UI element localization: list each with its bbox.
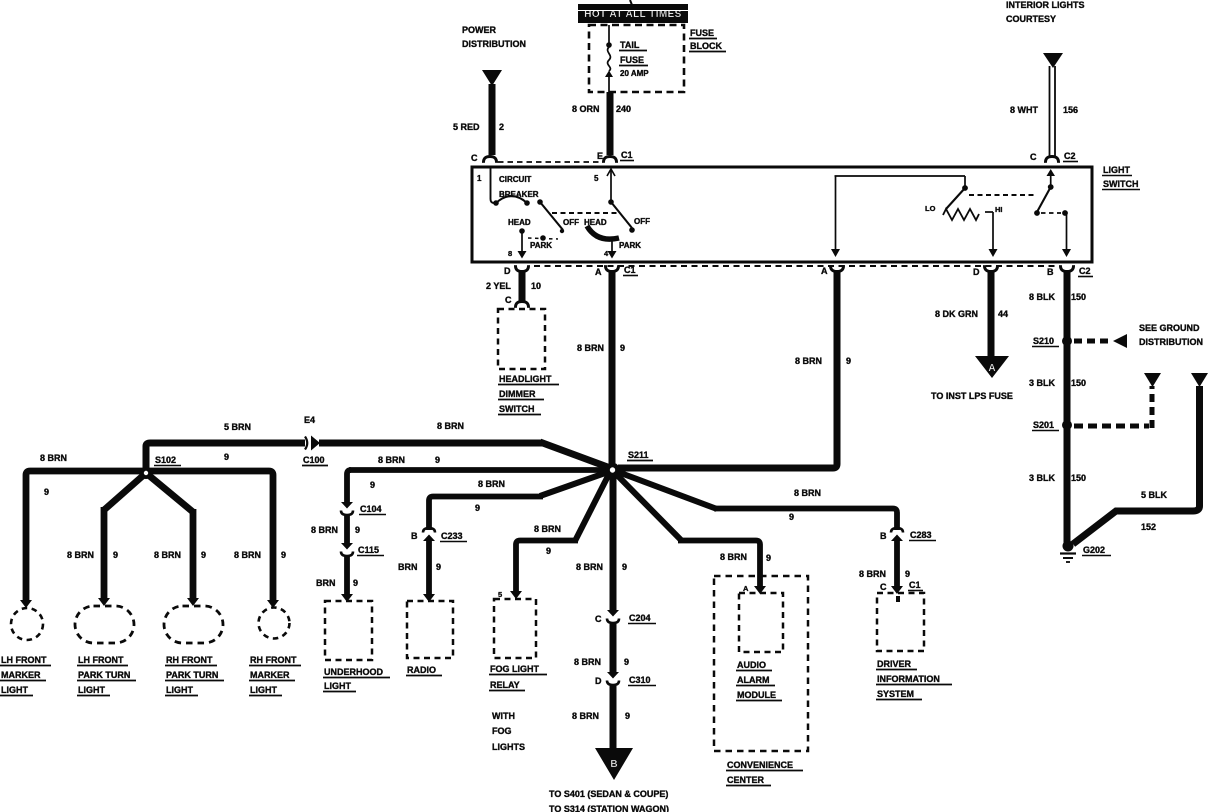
svg-text:10: 10 (531, 281, 541, 291)
svg-text:SWITCH: SWITCH (1103, 179, 1139, 189)
svg-text:LH FRONT: LH FRONT (1, 655, 47, 665)
svg-text:BRN: BRN (316, 578, 336, 588)
svg-text:8 WHT: 8 WHT (1010, 105, 1039, 115)
svg-text:20 AMP: 20 AMP (620, 69, 649, 78)
svg-text:BLOCK: BLOCK (690, 41, 722, 51)
svg-text:9: 9 (224, 452, 229, 462)
svg-text:DRIVER: DRIVER (877, 659, 912, 669)
svg-text:OFF: OFF (563, 218, 579, 227)
svg-text:FUSE: FUSE (690, 28, 714, 38)
svg-text:LIGHTS: LIGHTS (492, 742, 525, 752)
svg-text:ALARM: ALARM (737, 675, 770, 685)
svg-text:8 BRN: 8 BRN (234, 550, 261, 560)
svg-text:C283: C283 (910, 530, 932, 540)
svg-text:9: 9 (625, 711, 630, 721)
svg-text:C1: C1 (909, 580, 921, 590)
svg-text:LIGHT: LIGHT (78, 685, 105, 695)
svg-text:240: 240 (616, 104, 631, 114)
svg-text:TAIL: TAIL (620, 40, 640, 50)
svg-text:PARK: PARK (530, 241, 552, 250)
svg-text:156: 156 (1063, 105, 1078, 115)
svg-text:C: C (505, 295, 512, 305)
svg-text:PARK TURN: PARK TURN (166, 670, 218, 680)
svg-text:5: 5 (594, 174, 599, 183)
svg-text:TO S314 (STATION WAGON): TO S314 (STATION WAGON) (549, 804, 669, 812)
svg-text:152: 152 (1141, 522, 1156, 532)
svg-text:C310: C310 (629, 675, 651, 685)
svg-text:PARK: PARK (619, 241, 641, 250)
svg-text:OFF: OFF (634, 217, 650, 226)
svg-text:CIRCUIT: CIRCUIT (499, 175, 532, 184)
svg-text:9: 9 (353, 578, 358, 588)
svg-text:1: 1 (477, 174, 482, 183)
svg-text:8 BRN: 8 BRN (378, 455, 405, 465)
svg-text:8 ORN: 8 ORN (572, 104, 600, 114)
svg-text:B: B (411, 531, 418, 541)
svg-text:9: 9 (624, 657, 629, 667)
svg-text:CONVENIENCE: CONVENIENCE (727, 760, 793, 770)
svg-text:S210: S210 (1033, 336, 1054, 346)
svg-text:MODULE: MODULE (737, 690, 776, 700)
svg-text:150: 150 (1071, 473, 1086, 483)
svg-text:9: 9 (766, 553, 771, 563)
svg-text:BREAKER: BREAKER (499, 190, 539, 199)
svg-text:LIGHT: LIGHT (1, 685, 28, 695)
svg-text:8 BRN: 8 BRN (154, 550, 181, 560)
svg-text:S201: S201 (1033, 420, 1054, 430)
svg-text:FOG: FOG (492, 726, 512, 736)
svg-text:9: 9 (622, 562, 627, 572)
svg-text:C204: C204 (629, 613, 651, 623)
svg-text:MARKER: MARKER (250, 670, 290, 680)
svg-text:B: B (610, 759, 617, 770)
svg-text:LIGHT: LIGHT (166, 685, 193, 695)
svg-text:8 BRN: 8 BRN (40, 453, 67, 463)
svg-text:9: 9 (436, 562, 441, 572)
svg-text:PARK TURN: PARK TURN (78, 670, 130, 680)
svg-text:9: 9 (905, 569, 910, 579)
svg-text:HEAD: HEAD (508, 218, 531, 227)
svg-text:9: 9 (113, 550, 118, 560)
svg-text:INTERIOR LIGHTS: INTERIOR LIGHTS (1006, 0, 1085, 10)
svg-text:E: E (597, 151, 603, 161)
svg-text:POWER: POWER (462, 25, 497, 35)
svg-text:8 BLK: 8 BLK (1029, 292, 1056, 302)
svg-text:44: 44 (998, 309, 1008, 319)
svg-text:C1: C1 (624, 265, 636, 275)
svg-text:HEAD: HEAD (584, 218, 607, 227)
svg-text:8: 8 (508, 249, 512, 258)
svg-text:5 RED: 5 RED (453, 122, 480, 132)
svg-text:9: 9 (201, 550, 206, 560)
svg-text:INFORMATION: INFORMATION (877, 674, 940, 684)
svg-text:8 BRN: 8 BRN (534, 524, 561, 534)
svg-text:8 BRN: 8 BRN (572, 711, 599, 721)
svg-text:SWITCH: SWITCH (499, 404, 535, 414)
svg-text:3 BLK: 3 BLK (1029, 378, 1056, 388)
svg-text:9: 9 (846, 356, 851, 366)
svg-text:COURTESY: COURTESY (1006, 14, 1056, 24)
svg-text:MARKER: MARKER (1, 670, 41, 680)
svg-text:CENTER: CENTER (727, 775, 765, 785)
svg-text:D: D (973, 267, 980, 277)
svg-text:8 BRN: 8 BRN (720, 552, 747, 562)
svg-text:A: A (595, 267, 602, 277)
svg-text:DISTRIBUTION: DISTRIBUTION (1139, 337, 1203, 347)
svg-text:RELAY: RELAY (490, 680, 520, 690)
svg-text:G202: G202 (1083, 545, 1105, 555)
svg-text:WITH: WITH (492, 711, 515, 721)
svg-text:D: D (504, 266, 511, 276)
svg-text:TO INST LPS FUSE: TO INST LPS FUSE (931, 391, 1013, 401)
svg-text:8 BRN: 8 BRN (574, 657, 601, 667)
svg-text:8 DK GRN: 8 DK GRN (935, 309, 978, 319)
svg-text:B: B (880, 531, 887, 541)
svg-text:LIGHT: LIGHT (250, 685, 277, 695)
svg-text:8 BRN: 8 BRN (795, 356, 822, 366)
svg-text:A: A (821, 266, 828, 276)
svg-text:C104: C104 (360, 504, 382, 514)
svg-text:RH FRONT: RH FRONT (166, 655, 213, 665)
svg-text:8 BRN: 8 BRN (576, 562, 603, 572)
svg-text:LIGHT: LIGHT (1103, 165, 1130, 175)
svg-text:DISTRIBUTION: DISTRIBUTION (462, 39, 526, 49)
svg-text:A: A (988, 363, 995, 374)
svg-text:A: A (743, 584, 749, 593)
svg-text:9: 9 (44, 487, 49, 497)
svg-text:LIGHT: LIGHT (324, 681, 351, 691)
svg-text:UNDERHOOD: UNDERHOOD (324, 667, 384, 677)
svg-text:SYSTEM: SYSTEM (877, 689, 914, 699)
svg-text:2: 2 (499, 122, 504, 132)
svg-text:S102: S102 (155, 455, 176, 465)
svg-text:C2: C2 (1079, 266, 1091, 276)
svg-text:8 BRN: 8 BRN (577, 343, 604, 353)
svg-text:LO: LO (925, 204, 936, 213)
svg-text:150: 150 (1071, 378, 1086, 388)
svg-text:HEADLIGHT: HEADLIGHT (499, 374, 552, 384)
svg-text:9: 9 (789, 512, 794, 522)
svg-text:C: C (1030, 152, 1037, 162)
svg-text:DIMMER: DIMMER (499, 389, 536, 399)
svg-text:SEE GROUND: SEE GROUND (1139, 323, 1200, 333)
svg-text:S211: S211 (628, 450, 649, 460)
svg-text:150: 150 (1071, 292, 1086, 302)
svg-text:C: C (595, 614, 602, 624)
svg-text:AUDIO: AUDIO (737, 660, 766, 670)
svg-text:B: B (1047, 267, 1054, 277)
svg-text:RADIO: RADIO (407, 665, 436, 675)
svg-text:8 BRN: 8 BRN (859, 569, 886, 579)
svg-text:8 BRN: 8 BRN (437, 421, 464, 431)
svg-text:C: C (880, 582, 887, 592)
svg-text:C100: C100 (303, 455, 325, 465)
svg-text:C115: C115 (358, 545, 379, 555)
svg-text:RH FRONT: RH FRONT (250, 655, 297, 665)
svg-text:9: 9 (370, 480, 375, 490)
svg-text:2 YEL: 2 YEL (486, 281, 511, 291)
svg-text:9: 9 (475, 503, 480, 513)
svg-text:C2: C2 (1064, 151, 1076, 161)
svg-text:LH FRONT: LH FRONT (78, 655, 124, 665)
svg-text:TO S401 (SEDAN & COUPE): TO S401 (SEDAN & COUPE) (549, 789, 668, 799)
svg-text:3 BLK: 3 BLK (1029, 473, 1056, 483)
svg-text:5: 5 (498, 590, 502, 599)
svg-text:E4: E4 (304, 415, 315, 425)
svg-text:BRN: BRN (398, 562, 418, 572)
svg-text:5 BLK: 5 BLK (1141, 490, 1168, 500)
svg-text:9: 9 (435, 455, 440, 465)
svg-text:HI: HI (995, 205, 1003, 214)
svg-text:9: 9 (620, 343, 625, 353)
svg-text:9: 9 (281, 550, 286, 560)
svg-text:FOG LIGHT: FOG LIGHT (490, 664, 539, 674)
svg-text:8 BRN: 8 BRN (67, 550, 94, 560)
svg-text:9: 9 (355, 525, 360, 535)
svg-text:9: 9 (546, 546, 551, 556)
svg-text:5 BRN: 5 BRN (224, 422, 251, 432)
svg-text:FUSE: FUSE (620, 55, 644, 65)
svg-text:C: C (471, 153, 478, 163)
svg-text:C1: C1 (621, 150, 633, 160)
svg-text:D: D (595, 676, 602, 686)
svg-text:C233: C233 (441, 531, 463, 541)
svg-text:8 BRN: 8 BRN (794, 488, 821, 498)
svg-text:8 BRN: 8 BRN (311, 525, 338, 535)
svg-text:8 BRN: 8 BRN (478, 479, 505, 489)
